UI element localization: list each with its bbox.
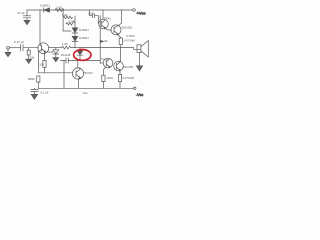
svg-text:680R: 680R [28, 77, 35, 81]
svg-text:0.39: 0.39 [69, 20, 75, 24]
svg-text:BC547: BC547 [84, 71, 93, 75]
capacitor mid [66, 58, 68, 63]
wire Q1 collector [39, 10, 41, 43]
ground under 33k [26, 59, 32, 63]
wire Q4 collector to 130 resistor [103, 67, 106, 75]
capacitor C1 47uF [23, 10, 30, 20]
svg-text:0-47OHM: 0-47OHM [123, 39, 134, 43]
resistor 680R [37, 76, 40, 82]
resistor 0.47 lower [118, 75, 121, 82]
wire mid node [60, 60, 100, 62]
wire Q2 collector [102, 10, 104, 19]
svg-text:130Ω: 130Ω [106, 76, 112, 80]
diode 4148 to ground [53, 48, 59, 58]
+Vcc terminal [133, 9, 136, 12]
ground bottom left [31, 92, 37, 100]
svg-text:-Vcc: -Vcc [136, 93, 143, 97]
wire to Q6 base rail [63, 61, 65, 89]
svg-text:1N4001: 1N4001 [79, 36, 89, 40]
svg-text:8 OHM: 8 OHM [127, 35, 135, 38]
svg-text:0.47 µF: 0.47 µF [14, 40, 24, 44]
resistor 0.47 upper [119, 38, 122, 45]
wire Q1 emitter down [44, 52, 46, 60]
svg-text:10k: 10k [103, 39, 108, 43]
resistor 10k [43, 60, 46, 67]
svg-text:1N4001: 1N4001 [40, 3, 50, 7]
transistor Q5 2N3055 lower [114, 61, 124, 71]
capacitor 0.1uF bottom left [31, 88, 38, 91]
wire emitter node to 1k [49, 47, 62, 49]
speaker 8 ohm [137, 45, 141, 53]
resistor 33k input bias [28, 48, 30, 51]
svg-text:vbe: vbe [83, 91, 88, 95]
resistor ladder A [63, 16, 72, 19]
wire top rail [27, 9, 132, 11]
svg-text:3.9Ω: 3.9Ω [56, 5, 62, 9]
resistor ladder B [66, 21, 75, 25]
svg-text:4148: 4148 [47, 50, 54, 54]
svg-text:Tip 42: Tip 42 [101, 57, 109, 61]
wire Q2 emitter to Q3 base [106, 29, 111, 30]
bias line vertical [99, 16, 101, 63]
wire Q4 base [100, 62, 103, 64]
svg-text:47 µF: 47 µF [17, 11, 25, 15]
wire to circled diode [75, 47, 80, 49]
svg-text:2N3.055: 2N3.055 [122, 26, 133, 30]
transistor Q3 2N3055 upper [111, 25, 121, 35]
wire lower-left horizontal [38, 72, 72, 74]
svg-text:1.0K: 1.0K [62, 42, 68, 46]
capacitor 0.001 [90, 10, 99, 23]
wire Q3 emitter to resistor [118, 34, 121, 38]
diode D2 1N4001 [72, 28, 78, 33]
wire lower collector [119, 48, 121, 62]
ground under speaker [136, 66, 142, 71]
wire output node to speaker [100, 48, 140, 50]
resistor 1.0k (horizontal) [62, 46, 75, 49]
wire bottom rail [38, 87, 133, 89]
wire Q6 top to mid node [77, 61, 79, 68]
-Vcc terminal [134, 87, 136, 89]
ground under C1 [24, 20, 30, 25]
wire Q3 collector from rail [118, 10, 122, 26]
svg-text:+Vcc: +Vcc [137, 11, 146, 16]
svg-text:6.8k: 6.8k [62, 13, 68, 17]
wire diode chain rail [74, 16, 76, 48]
transistor Q6 [72, 68, 83, 79]
svg-text:0.1 µF: 0.1 µF [41, 90, 49, 94]
svg-text:1N4148: 1N4148 [61, 53, 71, 57]
svg-text:10k: 10k [39, 63, 44, 67]
resistor 130 [102, 75, 105, 81]
diode D1 1N4001 (top rail) [44, 8, 50, 12]
wire Q6 emitter to rail [78, 79, 80, 89]
transistor Q2 TIP41 [99, 19, 109, 29]
diode D4 1N4148 (highlighted) [77, 48, 83, 61]
svg-text:1N4001: 1N4001 [79, 28, 89, 32]
svg-text:2N3.055: 2N3.055 [123, 65, 134, 69]
resistor R top rail [55, 9, 64, 12]
wire ladder left rail [63, 10, 71, 31]
wire Q5 emitter to resistor [119, 71, 121, 75]
svg-text:33k: 33k [30, 55, 35, 59]
ground under diode [53, 58, 59, 62]
diode D3 1N4001 [72, 36, 78, 41]
wire Q5 collector up [119, 61, 121, 63]
svg-text:0.001: 0.001 [88, 11, 95, 15]
transistor Q1 [38, 43, 49, 54]
capacitor Cin 0.47uF [21, 45, 38, 51]
svg-text:TIP41: TIP41 [103, 17, 111, 21]
transistor Q4 TIP42 [103, 58, 113, 68]
wire Q1 base leg down [38, 51, 40, 73]
wire speaker to ground [138, 53, 140, 66]
input terminal [7, 46, 10, 49]
svg-text:0-47OHM: 0-47OHM [123, 76, 134, 80]
red highlight ellipse [74, 50, 91, 61]
ground under input terminal [5, 49, 11, 57]
